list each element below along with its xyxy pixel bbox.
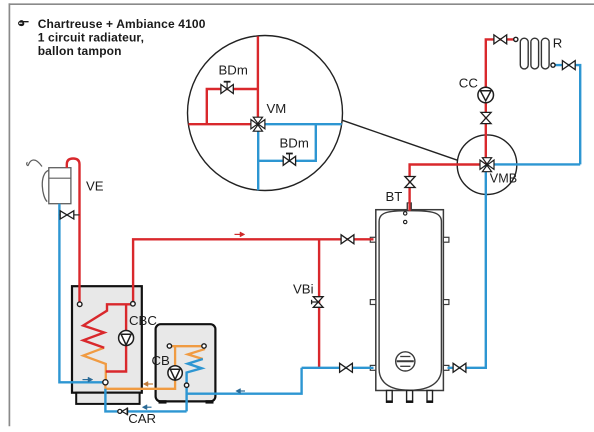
svg-text:VE: VE [86, 179, 104, 194]
svg-text:BT: BT [386, 189, 403, 204]
svg-text:Chartreuse + Ambiance 4100: Chartreuse + Ambiance 4100 [38, 17, 206, 31]
svg-text:VBi: VBi [293, 282, 314, 297]
svg-text:CC: CC [459, 76, 479, 91]
svg-text:1 circuit radiateur,: 1 circuit radiateur, [38, 31, 144, 45]
svg-text:BDm: BDm [219, 63, 248, 78]
svg-text:VMB: VMB [490, 171, 517, 185]
svg-text:CBC: CBC [129, 313, 157, 328]
svg-text:VM: VM [267, 101, 287, 116]
svg-text:CAR: CAR [128, 411, 156, 426]
svg-text:CB: CB [152, 353, 171, 368]
svg-text:R: R [553, 35, 563, 50]
svg-text:ballon tampon: ballon tampon [38, 44, 122, 58]
svg-text:BDm: BDm [280, 136, 309, 151]
